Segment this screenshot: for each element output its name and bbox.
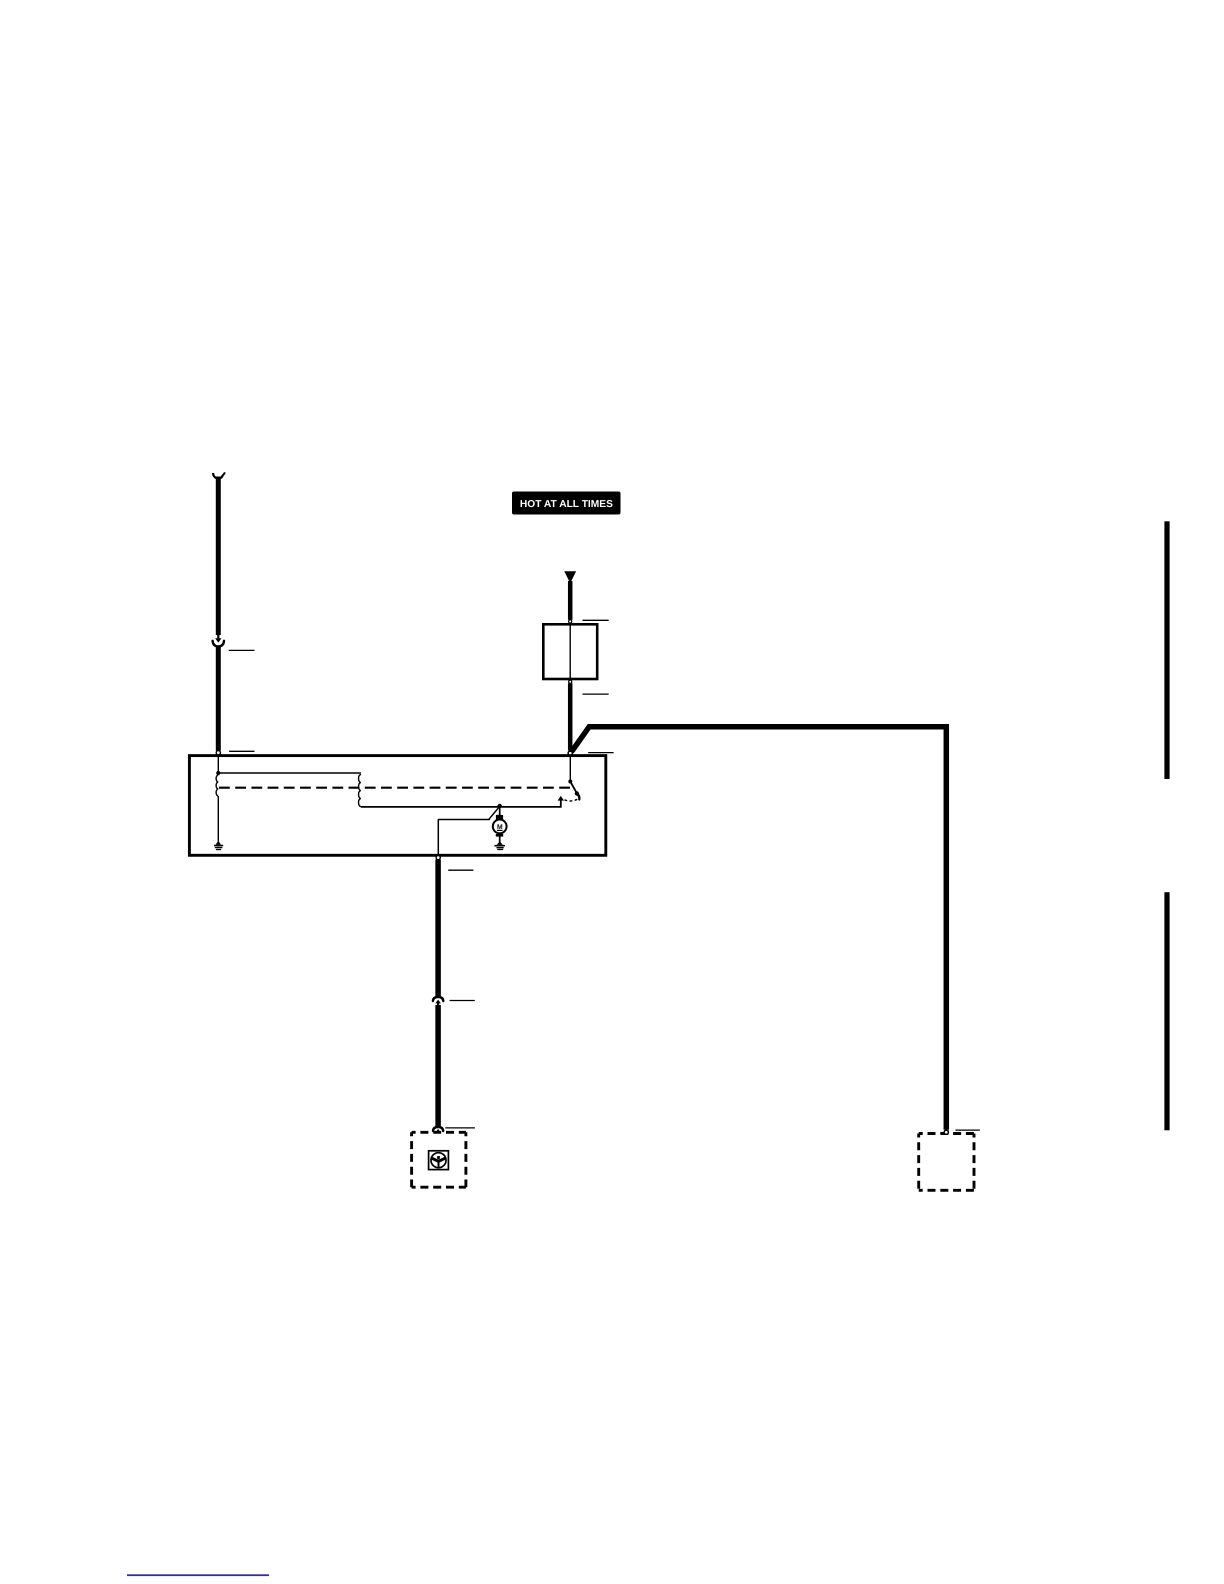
svg-text:M: M [497,824,503,831]
svg-text:HOT AT ALL TIMES: HOT AT ALL TIMES [520,499,613,510]
